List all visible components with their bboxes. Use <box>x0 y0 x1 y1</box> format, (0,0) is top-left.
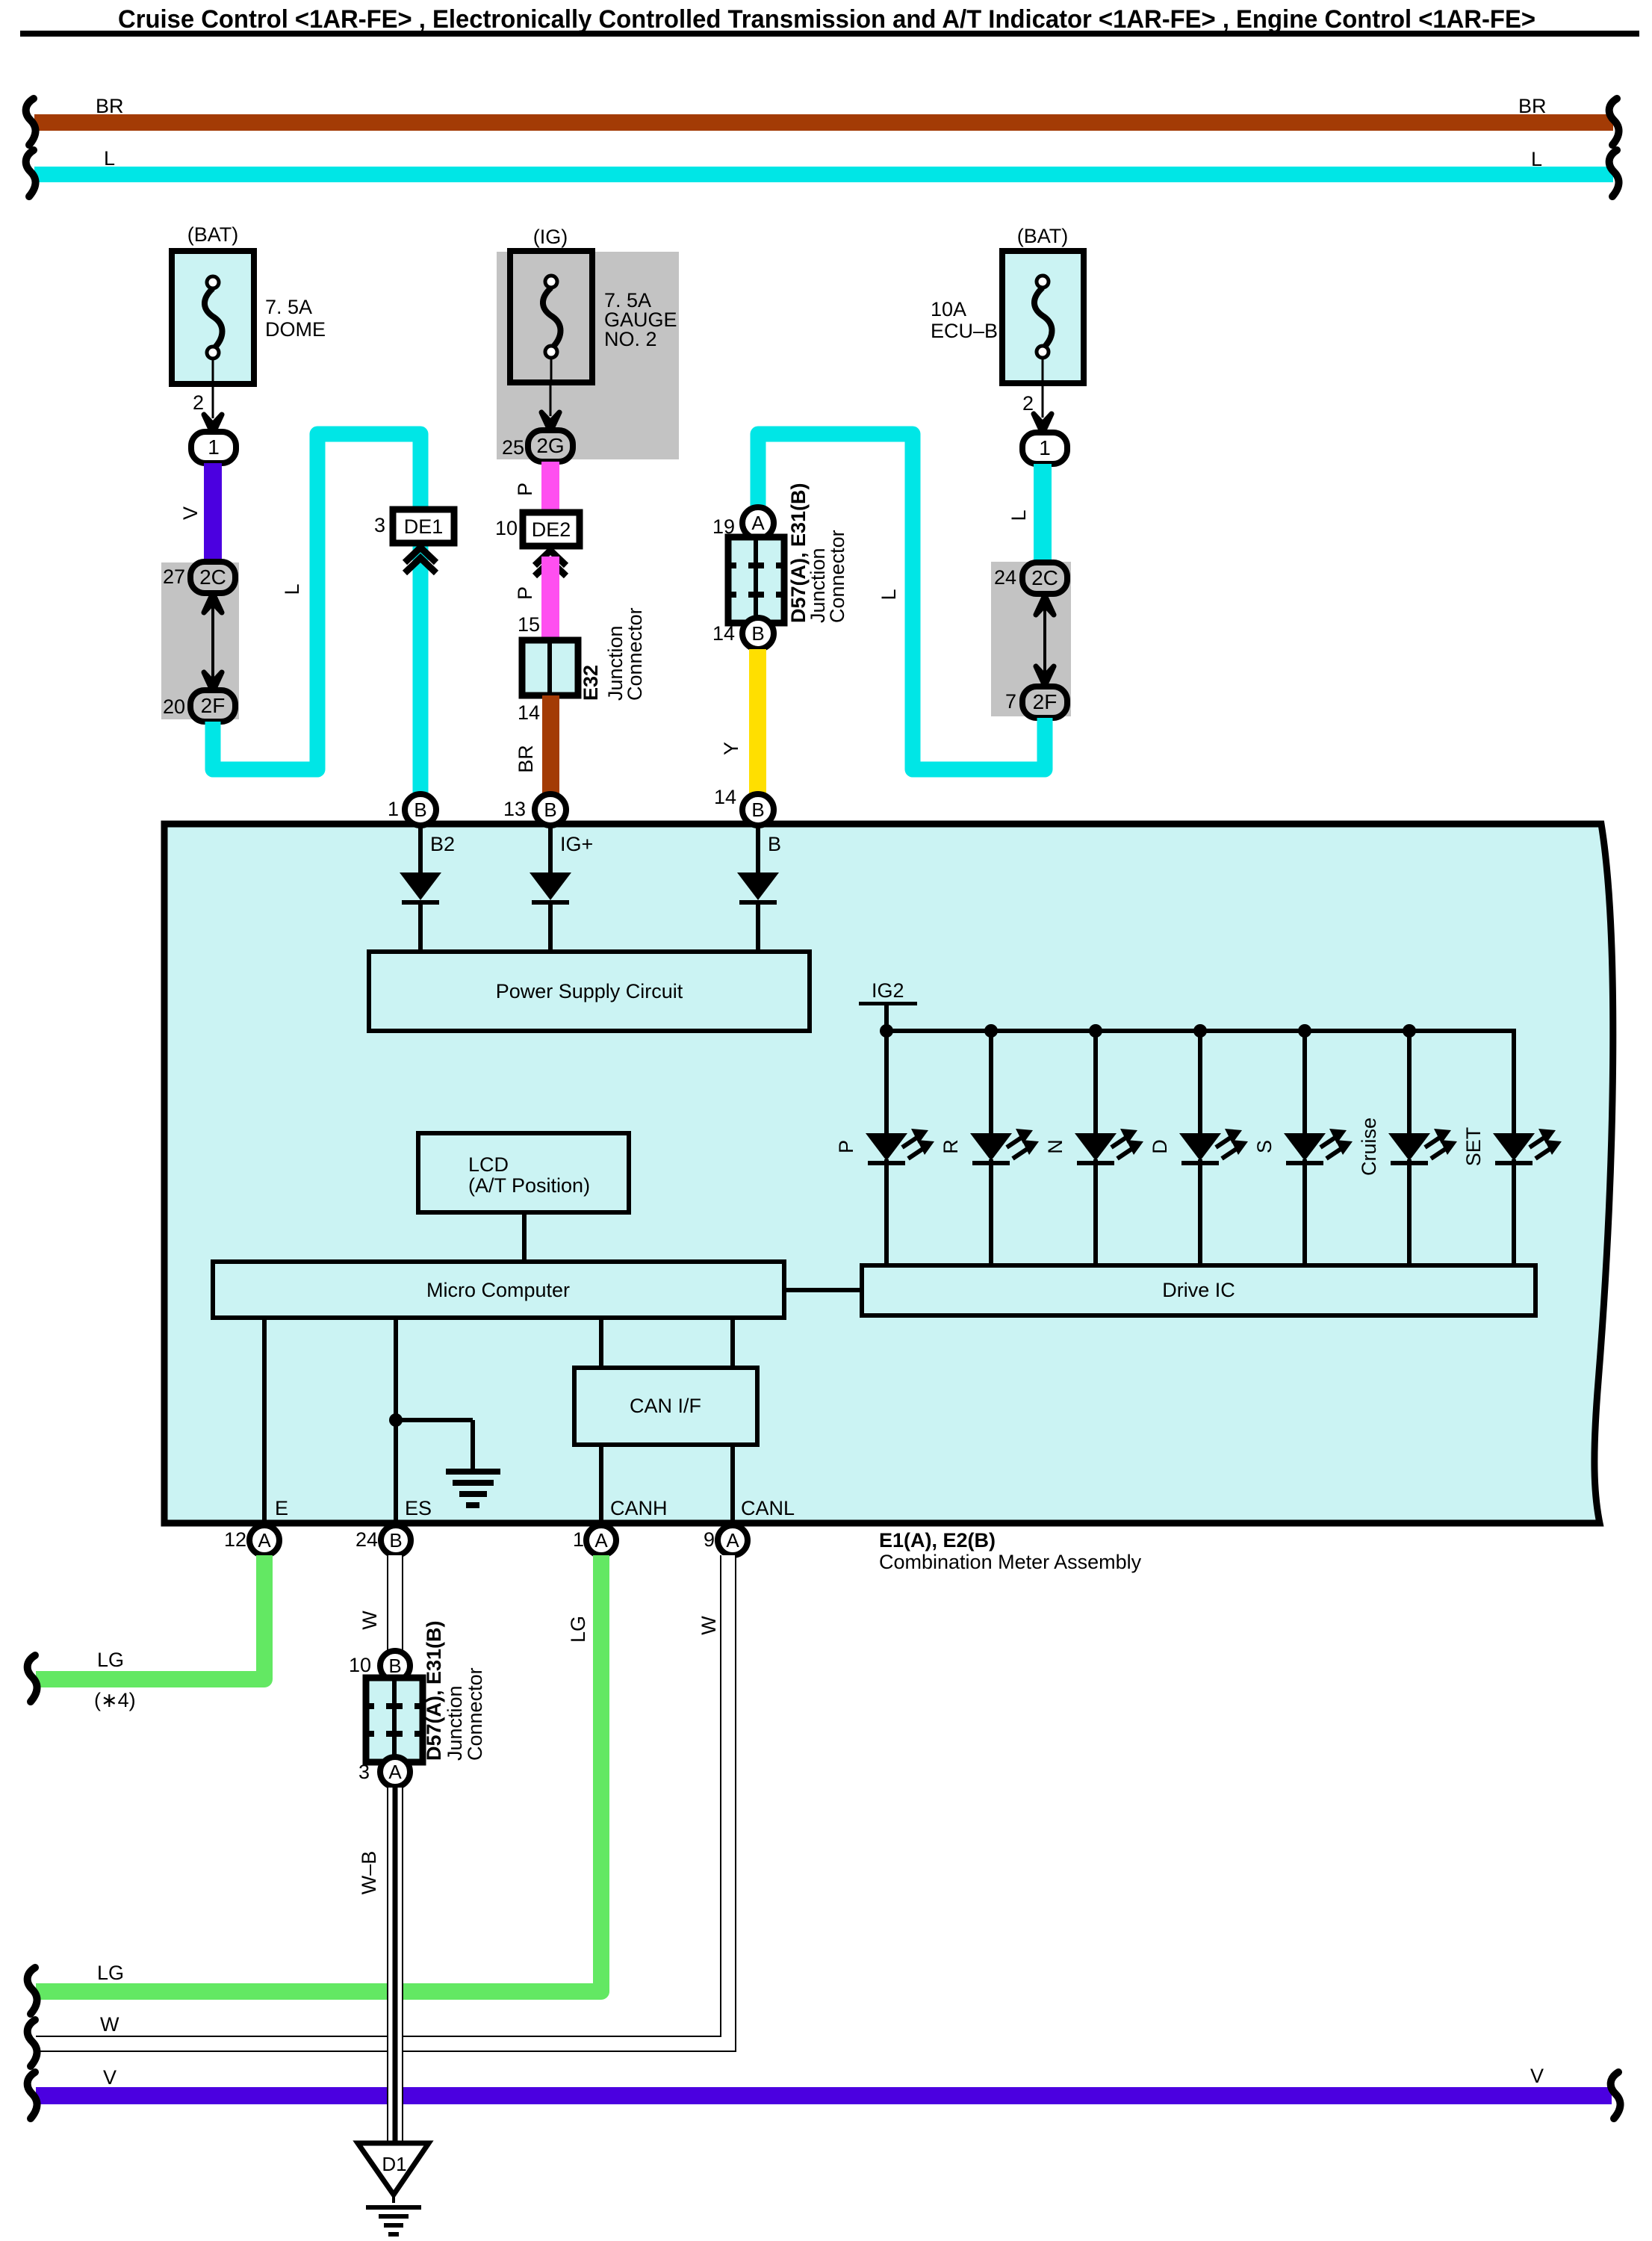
svg-text:B: B <box>544 799 556 821</box>
break symbol V right <box>1611 2072 1621 2118</box>
svg-text:V: V <box>103 2066 117 2089</box>
gray panel GAUGE fuse area <box>497 252 679 459</box>
svg-text:D1: D1 <box>382 2153 406 2175</box>
svg-text:A: A <box>726 1529 739 1552</box>
wire LED column N <box>1093 1031 1098 1133</box>
svg-text:B: B <box>751 622 764 645</box>
wire L bus (top) <box>34 167 1613 182</box>
svg-text:DE2: DE2 <box>532 518 571 541</box>
svg-text:N: N <box>1044 1139 1066 1154</box>
svg-text:13: 13 <box>503 798 526 820</box>
svg-text:25: 25 <box>502 436 524 459</box>
wire LED column Cruise <box>1407 1031 1412 1133</box>
wire V (DOME to 2C) <box>204 463 222 562</box>
svg-text:15: 15 <box>518 613 540 636</box>
pin circle B (meter ES) <box>381 1525 411 1555</box>
wire E internal <box>262 1318 267 1525</box>
fuse 7.5A DOME <box>172 251 254 384</box>
svg-text:9: 9 <box>704 1528 715 1551</box>
connector DE1 <box>393 509 454 543</box>
svg-text:14: 14 <box>712 622 735 645</box>
svg-text:CANL: CANL <box>741 1497 795 1519</box>
svg-text:CAN I/F: CAN I/F <box>630 1395 701 1417</box>
double arrow 2C-2F (left) <box>211 605 214 680</box>
svg-text:ES: ES <box>405 1497 432 1519</box>
combination meter assembly box <box>164 824 1613 1523</box>
svg-text:DOME: DOME <box>265 318 326 341</box>
junction dot LED bus (Cruise) <box>1403 1024 1416 1038</box>
svg-text:B: B <box>414 799 426 821</box>
LED D <box>1179 1133 1221 1161</box>
LED SET <box>1493 1133 1535 1161</box>
pin circle B (meter IG+) <box>535 794 566 825</box>
wire LED column R <box>989 1031 993 1133</box>
junction dot LED bus (S) <box>1298 1024 1311 1038</box>
svg-text:Connector: Connector <box>624 607 646 701</box>
svg-text:Drive IC: Drive IC <box>1162 1279 1235 1301</box>
double arrow 2C-2F (right) <box>1043 607 1046 674</box>
break symbol LG upper <box>28 1655 37 1702</box>
svg-text:D57(A), E31(B): D57(A), E31(B) <box>423 1620 445 1761</box>
svg-text:1: 1 <box>573 1528 584 1551</box>
wire B internal + diode <box>756 825 760 874</box>
svg-text:B: B <box>751 799 764 821</box>
svg-text:1: 1 <box>1039 436 1051 459</box>
micro computer box <box>213 1262 784 1318</box>
svg-text:Power Supply Circuit: Power Supply Circuit <box>496 980 683 1002</box>
chevrons DE1 <box>405 548 436 562</box>
wire fuse DOME lead <box>212 384 214 418</box>
svg-text:2C: 2C <box>199 565 226 589</box>
LED Cruise <box>1388 1133 1430 1161</box>
wire LED column SET <box>1512 1031 1516 1133</box>
svg-text:V: V <box>179 506 202 520</box>
svg-text:12: 12 <box>224 1528 246 1551</box>
svg-text:LG: LG <box>97 1649 124 1671</box>
svg-text:10: 10 <box>349 1654 371 1676</box>
wire CANL internal <box>730 1318 735 1368</box>
svg-text:L: L <box>1531 148 1542 170</box>
connector oval 2F (left) <box>190 690 235 722</box>
svg-text:A: A <box>594 1529 608 1552</box>
wire fuse ECU-B lead <box>1042 383 1044 418</box>
svg-text:L: L <box>1007 509 1030 521</box>
svg-text:Junction: Junction <box>444 1685 466 1761</box>
title underline <box>20 31 1639 37</box>
pin circle B (meter 14/B) <box>742 794 774 825</box>
svg-text:P: P <box>835 1140 857 1153</box>
svg-text:P: P <box>514 483 536 496</box>
svg-text:E32: E32 <box>580 665 602 701</box>
svg-text:2: 2 <box>193 391 204 414</box>
connector oval 1 (DOME) <box>191 432 236 463</box>
svg-text:20: 20 <box>163 695 185 718</box>
svg-text:1: 1 <box>388 798 399 820</box>
break symbol W lower <box>28 2020 37 2066</box>
svg-text:3: 3 <box>374 514 385 536</box>
svg-text:L: L <box>281 583 303 595</box>
svg-text:NO. 2: NO. 2 <box>604 328 657 350</box>
LED S <box>1284 1133 1326 1161</box>
svg-text:DE1: DE1 <box>404 515 444 538</box>
svg-text:(∗4): (∗4) <box>94 1689 136 1711</box>
pin circle A (D57 top) <box>742 507 774 539</box>
break symbol L right <box>1609 150 1619 196</box>
connector oval 2G <box>528 430 573 462</box>
wire IG+ internal + diode <box>548 825 553 874</box>
pin circle A (meter CANH) <box>586 1525 616 1555</box>
svg-text:2F: 2F <box>201 694 226 717</box>
svg-text:L: L <box>104 147 115 170</box>
svg-text:3: 3 <box>358 1761 370 1783</box>
wire W (meter CANL to harness) <box>36 1555 728 2044</box>
wire LED bus <box>886 1031 1514 1133</box>
arrow into connector 1 (DOME) <box>204 415 222 434</box>
wire ES internal <box>394 1318 398 1525</box>
power supply circuit box <box>369 952 810 1031</box>
LED R <box>970 1133 1012 1161</box>
junction dot ES/ground <box>389 1413 403 1427</box>
svg-text:BR: BR <box>96 95 124 117</box>
wire CANH internal <box>599 1318 603 1368</box>
svg-text:Cruise: Cruise <box>1358 1118 1380 1176</box>
LED N <box>1075 1133 1117 1161</box>
svg-text:(A/T Position): (A/T Position) <box>468 1174 590 1197</box>
wire W-B (D57 to D1 ground) <box>387 1788 403 2143</box>
pin circle A (D57 lower bottom) <box>380 1757 410 1787</box>
svg-text:LG: LG <box>567 1616 589 1643</box>
CAN I/F box <box>574 1368 757 1445</box>
junction dot LED bus (D) <box>1193 1024 1207 1038</box>
junction dot LED bus (R) <box>984 1024 998 1038</box>
svg-text:LCD: LCD <box>468 1153 509 1176</box>
diode D1 (ground point) <box>358 2143 429 2195</box>
svg-text:E: E <box>275 1497 288 1519</box>
svg-text:BR: BR <box>515 745 537 773</box>
chevrons DE2 <box>535 551 566 565</box>
svg-text:ECU–B: ECU–B <box>931 320 998 342</box>
wire BR bus (top) <box>34 114 1613 131</box>
svg-text:B: B <box>388 1655 401 1677</box>
connector oval 1 (ECU-B) <box>1022 433 1067 464</box>
svg-text:SET: SET <box>1462 1127 1485 1167</box>
svg-text:(BAT): (BAT) <box>1017 225 1069 247</box>
break symbol V left <box>28 2072 37 2118</box>
svg-text:2C: 2C <box>1031 566 1058 589</box>
connector oval 2F (right) <box>1022 686 1067 718</box>
svg-text:Connector: Connector <box>826 530 848 623</box>
junction dot LED bus (N) <box>1089 1024 1102 1038</box>
svg-text:Cruise Control <1AR-FE> , Elec: Cruise Control <1AR-FE> , Electronically… <box>118 5 1535 34</box>
svg-text:10: 10 <box>495 517 518 539</box>
arrow into connector 1 (ECU-B) <box>1034 414 1052 433</box>
wire LED column P <box>884 1031 889 1133</box>
svg-text:(IG): (IG) <box>533 226 568 248</box>
svg-text:L: L <box>878 589 900 600</box>
svg-text:E1(A), E2(B): E1(A), E2(B) <box>879 1529 996 1552</box>
svg-text:A: A <box>388 1761 402 1783</box>
svg-text:B: B <box>768 833 781 855</box>
junction connector D57(A) E31(B) upper <box>728 537 784 623</box>
junction dot LED bus (P) <box>880 1024 893 1038</box>
svg-text:Micro Computer: Micro Computer <box>426 1279 570 1301</box>
svg-text:S: S <box>1253 1140 1276 1153</box>
svg-text:2: 2 <box>1022 392 1034 415</box>
svg-text:A: A <box>258 1529 271 1552</box>
fuse 7.5A GAUGE NO.2 <box>510 251 592 382</box>
wire V bus (bottom) <box>36 2087 1612 2104</box>
svg-text:14: 14 <box>714 786 736 808</box>
svg-text:D: D <box>1149 1139 1171 1154</box>
svg-text:BR: BR <box>1518 95 1547 117</box>
svg-text:27: 27 <box>163 565 185 588</box>
svg-text:V: V <box>1530 2065 1544 2087</box>
connector oval 2C (left) <box>190 562 235 593</box>
svg-text:B: B <box>389 1529 402 1552</box>
svg-text:IG2: IG2 <box>872 979 904 1002</box>
svg-text:24: 24 <box>355 1528 378 1551</box>
svg-text:Connector: Connector <box>464 1667 486 1761</box>
wire W (meter ES to D57 pin 10) <box>387 1555 403 1652</box>
ground (meter internal) <box>396 1418 473 1422</box>
junction connector E32 <box>522 640 578 695</box>
wire LCD to micro computer <box>522 1212 527 1262</box>
svg-text:7. 5A: 7. 5A <box>265 296 312 318</box>
pin circle B (D57 lower top) <box>380 1651 410 1681</box>
wire Y (D57 to meter B) <box>749 649 766 795</box>
svg-text:P: P <box>514 586 536 600</box>
wire B2 internal + diode <box>418 825 423 874</box>
arrow into connector 2G <box>541 412 559 432</box>
LCD box <box>418 1133 629 1212</box>
svg-text:B2: B2 <box>430 833 455 855</box>
wire P lower (DE2 to E32) <box>541 557 559 640</box>
gray panel 2C/2F right <box>991 562 1071 716</box>
svg-text:2F: 2F <box>1033 690 1058 713</box>
svg-text:10A: 10A <box>931 298 966 320</box>
wire LED column D <box>1198 1031 1202 1133</box>
break symbol BR right <box>1609 99 1619 145</box>
fuse 10A ECU-B <box>1002 251 1084 383</box>
svg-text:Y: Y <box>720 742 742 755</box>
wire fuse GAUGE lead <box>550 382 552 416</box>
drive IC box <box>862 1265 1535 1315</box>
wire BR (E32 to meter IG+) <box>542 695 559 795</box>
svg-text:W: W <box>100 2013 119 2036</box>
svg-text:7: 7 <box>1005 690 1016 713</box>
svg-text:A: A <box>751 512 765 534</box>
connector oval 2C (right) <box>1022 562 1067 594</box>
svg-text:W–B: W–B <box>358 1851 380 1895</box>
break symbol L left <box>26 150 36 196</box>
svg-text:2G: 2G <box>536 434 564 457</box>
pin circle A (meter E) <box>249 1525 279 1555</box>
LED P <box>866 1133 907 1161</box>
wire LG (meter E to harness, *4) <box>36 1555 264 1679</box>
ground (D1) <box>392 2195 395 2203</box>
gray panel 2C/2F left <box>161 562 239 719</box>
wire LED column S <box>1302 1031 1307 1133</box>
svg-text:W: W <box>358 1611 381 1630</box>
break symbol BR left <box>26 99 36 145</box>
svg-text:W: W <box>698 1616 720 1635</box>
wire LG (meter CANH to harness) <box>36 1555 601 1992</box>
pin circle A (meter CANL) <box>718 1525 748 1555</box>
wire L (ECU-B oval to 2C) <box>1034 464 1052 562</box>
svg-text:1: 1 <box>208 436 220 459</box>
wire L loop (left) 2F to DE1 to meter <box>213 434 420 795</box>
svg-text:LG: LG <box>97 1962 124 1984</box>
svg-text:(BAT): (BAT) <box>187 223 239 246</box>
svg-text:R: R <box>940 1139 962 1154</box>
svg-text:14: 14 <box>518 701 540 724</box>
break symbol LG lower <box>28 1968 37 2014</box>
wire micro computer to drive IC <box>784 1288 862 1292</box>
junction connector D57(A) E31(B) lower <box>366 1678 423 1762</box>
wire P upper (2G to DE2) <box>541 462 559 512</box>
svg-text:Combination Meter Assembly: Combination Meter Assembly <box>879 1551 1142 1573</box>
svg-text:CANH: CANH <box>610 1497 668 1519</box>
connector DE2 <box>523 512 580 546</box>
svg-text:IG+: IG+ <box>560 833 593 855</box>
pin circle B (D57 bottom) <box>742 618 774 649</box>
pin circle B (meter B2) <box>405 794 436 825</box>
wire IG2 to LED bus <box>884 1005 889 1031</box>
wire L loop (right) 2F to D57 pin 19 <box>758 434 1045 769</box>
svg-text:24: 24 <box>994 566 1016 589</box>
